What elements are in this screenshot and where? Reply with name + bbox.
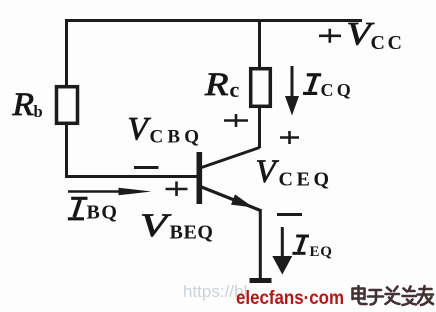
label VCEQ bbox=[256, 154, 333, 191]
svg-text:CQ: CQ bbox=[321, 80, 354, 100]
resistor Rc bbox=[251, 69, 271, 107]
label IEQ bbox=[292, 236, 332, 260]
label ICQ bbox=[303, 75, 354, 100]
svg-text:R: R bbox=[11, 87, 34, 123]
wire collector bbox=[202, 106, 260, 168]
watermark chinese characters bbox=[353, 286, 434, 305]
plus sign at VCC bbox=[319, 29, 341, 43]
wire emitter vertical bbox=[259, 209, 262, 279]
svg-text:CC: CC bbox=[371, 32, 405, 54]
svg-text:R: R bbox=[204, 67, 229, 103]
svg-text:V: V bbox=[140, 208, 172, 244]
label VBEQ bbox=[140, 208, 214, 244]
current arrow IEQ bbox=[281, 227, 284, 258]
label VCC bbox=[347, 17, 405, 55]
plus sign at base bbox=[166, 182, 188, 197]
label IBQ bbox=[68, 198, 119, 223]
ground bbox=[250, 278, 272, 283]
transistor Q1 base bar bbox=[197, 152, 203, 204]
plus sign at VCEQ bbox=[280, 131, 299, 144]
current arrow ICQ bbox=[291, 66, 294, 98]
label Rb bbox=[11, 87, 42, 123]
svg-text:CEQ: CEQ bbox=[279, 169, 333, 191]
wire Rc branch from rail bbox=[258, 19, 261, 68]
svg-text:CBQ: CBQ bbox=[150, 127, 204, 148]
wire top rail bbox=[65, 19, 362, 22]
minus sign at base bbox=[134, 166, 159, 169]
svg-text:V: V bbox=[256, 154, 280, 190]
svg-text:EQ: EQ bbox=[310, 244, 333, 260]
svg-text:elecfans·com: elecfans·com bbox=[236, 288, 344, 309]
current arrow IBQ bbox=[68, 190, 122, 193]
svg-text:BEQ: BEQ bbox=[170, 222, 214, 244]
label VCBQ bbox=[128, 112, 204, 148]
wire left branch upper bbox=[65, 19, 68, 86]
label Rc bbox=[204, 67, 240, 103]
svg-text:BQ: BQ bbox=[87, 202, 119, 224]
plus sign below Rc bbox=[224, 114, 248, 127]
transistor Q1 emitter with arrow bbox=[202, 187, 261, 211]
wire Rb to base node bbox=[65, 124, 197, 178]
svg-text:c: c bbox=[230, 77, 240, 102]
svg-text:b: b bbox=[34, 102, 43, 121]
resistor Rb bbox=[57, 87, 78, 124]
svg-text:V: V bbox=[128, 112, 152, 148]
minus sign at IEQ bbox=[277, 213, 302, 216]
